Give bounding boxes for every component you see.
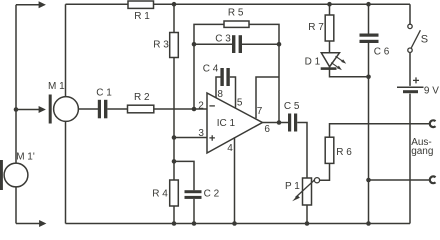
junction: inverting node (192, 107, 197, 112)
svg-text:P 1: P 1 (285, 181, 300, 192)
svg-text:D 1: D 1 (305, 56, 321, 67)
resistor R2 (128, 105, 154, 113)
svg-text:M 1: M 1 (48, 81, 65, 92)
wire: pin 8 / C4 left lead (216, 77, 221, 98)
junction: output node (277, 120, 282, 125)
op-amp IC1 (207, 93, 262, 153)
wire: R5 left lead (194, 24, 224, 44)
svg-text:R 7: R 7 (308, 22, 324, 33)
wire: ground row to output terminal (369, 179, 431, 181)
terminal: output minus (430, 176, 436, 183)
wire: C2 bracket (174, 161, 194, 190)
wire: R4 ground lead (173, 206, 175, 224)
capacitor C2 (185, 190, 202, 199)
wire: feedback down to output (278, 44, 280, 122)
wire: R7 to D1 (329, 41, 331, 53)
wire: R6 to output terminal (330, 124, 431, 138)
svg-text:4: 4 (227, 143, 233, 154)
wire: sound arrow top (16, 1, 46, 8)
svg-text:IC 1: IC 1 (217, 118, 236, 129)
wire: wiper to R6 (320, 163, 330, 180)
wire: pin 4 ground lead (234, 137, 236, 223)
svg-text:7: 7 (257, 106, 263, 117)
microphone M1 diaphragm (49, 95, 52, 124)
wire: R5 right lead (249, 24, 279, 44)
junction: D1 / C6 node (366, 75, 371, 80)
op-amp inverting input marker (209, 105, 215, 107)
wire: sound arrow into M1 (16, 106, 46, 113)
svg-text:C 3: C 3 (215, 34, 231, 45)
svg-text:3: 3 (198, 128, 204, 139)
capacitor C5 (288, 114, 297, 132)
svg-text:C 6: C 6 (374, 47, 390, 58)
junction: top rail / R3 (172, 2, 177, 7)
svg-text:R 5: R 5 (228, 8, 244, 19)
svg-text:M 1': M 1' (16, 151, 35, 162)
potentiometer P1 wiper arrow (292, 180, 315, 202)
resistor R1 (128, 1, 154, 8)
junction: feedback right node (277, 42, 282, 47)
wire: inverting node up to feedback (193, 44, 195, 109)
svg-text:R 3: R 3 (153, 40, 169, 51)
wire: C1 to R2 (108, 108, 128, 110)
junction: ground rail / C6 (366, 221, 371, 226)
svg-text:6: 6 (264, 124, 270, 135)
potentiometer P1 wiper terminal (314, 178, 319, 183)
junction: ground rail / C2 (192, 221, 197, 226)
wire: C6 branch (368, 4, 370, 33)
label Ausgang (411, 137, 433, 157)
wire: right supply rail (409, 4, 411, 223)
battery plus sign (413, 77, 419, 83)
svg-text:R 6: R 6 (336, 147, 352, 158)
junction: feedback left node (192, 42, 197, 47)
microphone M1' diaphragm (0, 160, 3, 190)
wire: ground rail (66, 223, 411, 225)
wire: R3 branch from rail (173, 4, 175, 32)
wire: R2 to pin 2 (154, 108, 207, 110)
battery negative plate (403, 90, 418, 93)
battery positive plate (397, 86, 424, 88)
potentiometer P1 (303, 178, 312, 205)
microphone M1' (4, 163, 28, 187)
junction: C6 line / terminal row (366, 178, 371, 183)
resistor R7 (325, 15, 334, 41)
svg-text:2: 2 (198, 101, 204, 112)
resistor R4 (170, 180, 179, 206)
svg-text:C 1: C 1 (96, 87, 112, 98)
junction: ground rail / R4 (172, 221, 177, 226)
resistor R3 (170, 33, 179, 58)
resistor R6 (325, 137, 334, 163)
op-amp non-inverting input marker (209, 135, 215, 141)
LED D1 light arrows (331, 56, 346, 70)
capacitor C4 (220, 68, 229, 86)
wire: R7 branch (329, 4, 331, 15)
wire: pin 7 jog (256, 77, 279, 118)
switch S (408, 24, 421, 52)
wire: D1 to C6 line (330, 67, 369, 77)
wire: C5 to P1 (297, 123, 307, 179)
junction: top rail / C6 (366, 2, 371, 7)
wire: P1 ground lead (306, 205, 308, 224)
wire: sound arrow bottom (16, 220, 46, 227)
wire: C3 row (194, 43, 279, 45)
junction: non-inverting node (172, 135, 177, 140)
junction: ground rail / pin 4 (232, 221, 237, 226)
capacitor C1 (98, 100, 108, 119)
LED D1 (321, 53, 340, 69)
svg-text:C 2: C 2 (204, 189, 220, 200)
microphone M1 (54, 97, 79, 122)
wire: supply loop left edge (65, 4, 67, 223)
wire: left input rail (15, 5, 17, 224)
svg-text:5: 5 (237, 97, 243, 108)
capacitor C6 (360, 34, 379, 44)
resistor R5 (224, 21, 249, 27)
svg-text:C 5: C 5 (284, 101, 300, 112)
wire: output lead (262, 122, 288, 124)
terminal: output plus (430, 120, 436, 127)
capacitor C3 (232, 35, 242, 53)
svg-text:9 V: 9 V (424, 86, 439, 97)
svg-text:R 1: R 1 (134, 11, 150, 22)
svg-text:R 2: R 2 (134, 92, 150, 103)
wire: top supply rail (66, 3, 411, 5)
svg-text:gang: gang (411, 146, 433, 157)
svg-text:S: S (421, 33, 428, 45)
junction: left rail to M1 arrow (14, 107, 19, 112)
wire: pin 5 / C4 right lead (230, 77, 236, 108)
svg-text:R 4: R 4 (152, 189, 168, 200)
wire: C2 ground lead (193, 199, 195, 224)
svg-text:C 4: C 4 (203, 64, 219, 75)
wire: pin 3 lead (174, 137, 207, 139)
wire: C6 to ground (368, 43, 370, 224)
junction: top rail / R7 (327, 2, 332, 7)
wire: R3 to R4 (173, 58, 175, 181)
junction: R4 C2 node (172, 159, 177, 164)
junction: ground rail / P1 (305, 221, 310, 226)
wire: M1 to C1 (78, 108, 98, 110)
